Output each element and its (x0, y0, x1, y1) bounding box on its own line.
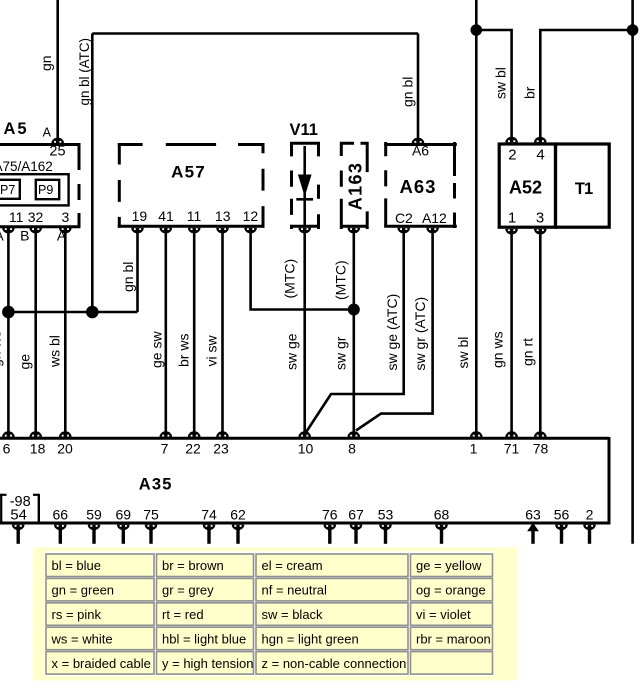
svg-text:rbr = maroon: rbr = maroon (416, 631, 491, 646)
svg-text:7: 7 (161, 440, 169, 456)
wire gn bl (ATC) vertical (77, 34, 92, 313)
svg-text:A163: A163 (346, 162, 366, 211)
svg-text:76: 76 (322, 506, 338, 522)
bus A35 top pin 71 (504, 431, 520, 456)
svg-text:78: 78 (533, 440, 549, 456)
fuse P9 (36, 180, 59, 199)
label A52 (509, 178, 542, 198)
bus A35 top pin 22 (185, 431, 201, 456)
junction A5-11 / A57-19 link (2, 306, 15, 319)
wire A57 pin 11 to bus pin 22 (175, 233, 194, 434)
label A57 (171, 163, 206, 182)
svg-text:53: 53 (378, 506, 394, 522)
wire A57 pin 41 to bus pin 7 (148, 233, 166, 434)
bus A35 bottom pin 68 (434, 506, 450, 544)
svg-text:8: 8 (348, 440, 356, 456)
junction A57-12 / A163 wire (348, 304, 360, 316)
V11 bottom terminal (298, 228, 311, 234)
svg-text:69: 69 (116, 506, 132, 522)
svg-text:A: A (57, 227, 67, 243)
svg-text:x = braided cable: x = braided cable (52, 656, 151, 671)
svg-text:66: 66 (53, 506, 69, 522)
bus A35 top pin 6 (2, 431, 15, 456)
wire gn bl (ATC) horizontal to A63 (92, 32, 418, 35)
svg-text:og = orange: og = orange (416, 583, 486, 598)
svg-text:18: 18 (30, 440, 46, 456)
svg-text:54: 54 (10, 507, 26, 523)
bus A35 top pin 18 (29, 431, 45, 456)
bus A35 top pin 1 (470, 431, 483, 456)
fuse carrier box in A5 (0, 174, 69, 205)
svg-text:gn rt: gn rt (519, 338, 535, 366)
svg-text:25: 25 (49, 144, 65, 160)
bus A35 bottom pin 66 (53, 506, 69, 544)
junction on br trunk (627, 24, 639, 36)
terminal 54 bracket -98 (0, 494, 40, 524)
label A5 (4, 120, 29, 138)
svg-text:P7: P7 (0, 183, 15, 197)
bus A35 bottom pin 56 (554, 506, 570, 544)
A5 pin 3 (57, 209, 72, 244)
wire V11 to bus pin 10 (282, 233, 305, 434)
A57 pin 41 (158, 208, 174, 234)
svg-text:gr = grey: gr = grey (162, 583, 214, 598)
svg-text:sw bl: sw bl (455, 337, 471, 369)
svg-text:(MTC): (MTC) (333, 260, 349, 300)
svg-text:gn ws: gn ws (0, 330, 4, 367)
svg-text:gn ws: gn ws (490, 331, 506, 368)
wire sw bl branch to A52 pin 2 (476, 30, 511, 139)
wire A57 pin 19 down (120, 233, 138, 312)
svg-text:A57: A57 (171, 163, 206, 182)
svg-text:2: 2 (508, 146, 516, 163)
bus A35 bottom pin 75 (143, 506, 159, 544)
A52 pin 4 (534, 137, 547, 164)
svg-text:A6: A6 (412, 142, 429, 158)
control unit A57 box (118, 143, 265, 228)
svg-text:71: 71 (504, 440, 520, 456)
svg-text:V11: V11 (290, 121, 318, 139)
bus A35 top pin 10 (298, 431, 314, 456)
svg-text:rs = pink: rs = pink (52, 607, 102, 622)
wire A163 to bus pin 8 (332, 233, 353, 434)
svg-text:56: 56 (554, 506, 570, 522)
svg-text:br ws: br ws (175, 334, 191, 367)
svg-text:vi = violet: vi = violet (416, 607, 471, 622)
svg-text:3: 3 (62, 209, 70, 225)
wire A57 pin 12 to sw gr junction (251, 233, 354, 310)
label T1 (575, 180, 593, 198)
wire gn from top to A5 pin 25 (38, 0, 58, 139)
svg-text:P9: P9 (38, 183, 53, 197)
A52 pin 1 (505, 210, 518, 235)
svg-text:ge sw: ge sw (148, 331, 164, 368)
svg-text:13: 13 (215, 208, 231, 224)
wire A57 pin 13 to bus pin 23 (203, 233, 222, 434)
relay A52 box (499, 144, 555, 227)
bus A35 bottom pin 62 (230, 506, 246, 544)
wire br trunk right side (631, 0, 634, 544)
svg-text:A35: A35 (139, 476, 173, 494)
A63 pin A6 terminal (412, 138, 430, 159)
A52 pin 2 (505, 137, 518, 164)
svg-text:41: 41 (158, 208, 174, 224)
wire A52 pin 1 to bus pin 71 (490, 233, 512, 434)
svg-text:68: 68 (434, 506, 450, 522)
svg-text:hgn = light green: hgn = light green (262, 631, 359, 646)
svg-text:20: 20 (57, 440, 73, 456)
terminal A5 pin 25 (43, 126, 66, 160)
fuse P7 (0, 180, 20, 199)
svg-text:A63: A63 (400, 176, 437, 197)
wire A5 pin 11 to bus pin 6 (0, 233, 8, 434)
label A35 (139, 476, 173, 494)
svg-text:B: B (20, 227, 29, 243)
A52 pin 3 (534, 210, 547, 235)
junction on sw bl trunk (471, 24, 483, 36)
svg-text:nf = neutral: nf = neutral (262, 583, 328, 598)
svg-text:4: 4 (536, 146, 544, 163)
svg-text:gn bl (ATC): gn bl (ATC) (77, 38, 92, 105)
svg-text:gn = green: gn = green (52, 583, 115, 598)
relay box A5 (0, 143, 81, 228)
bus A35 right edge (608, 437, 611, 525)
svg-text:gn bl: gn bl (120, 262, 136, 292)
diode symbol in V11 (296, 146, 313, 225)
svg-text:sw ge (ATC): sw ge (ATC) (384, 294, 400, 371)
svg-text:ws = white: ws = white (51, 631, 113, 646)
svg-text:y = high tension: y = high tension (162, 656, 253, 671)
svg-text:10: 10 (298, 440, 314, 456)
wire link A57 pin 19 to A5 pin 11 wire (8, 311, 137, 314)
wire br from A52 pin 4 to right trunk (521, 30, 632, 139)
wire A63 pin A12 to bus pin 8 (356, 233, 433, 431)
bus A35 bottom pin 74 (201, 506, 217, 544)
wire A5 pin 3 to bus pin 20 (46, 233, 65, 434)
bus A35 bottom pin 54 (12, 525, 25, 544)
svg-text:A12: A12 (422, 210, 447, 226)
label A63 (400, 176, 437, 197)
bus A35 bottom pin 63 with arrow (525, 506, 541, 544)
bus A35 bottom rail (0, 522, 609, 525)
A5 pin 32 (20, 209, 43, 244)
svg-text:12: 12 (243, 208, 259, 224)
svg-text:gn bl: gn bl (400, 77, 416, 107)
svg-text:11: 11 (187, 208, 202, 224)
svg-text:sw gr (ATC): sw gr (ATC) (412, 297, 428, 371)
svg-text:ws bl: ws bl (46, 335, 62, 368)
label A75/A162 (0, 159, 53, 174)
A57 pin 11 (187, 208, 202, 234)
A63 pin C2 (395, 210, 413, 234)
colour code legend table (34, 547, 519, 680)
label A163 rotated (346, 162, 366, 211)
svg-text:bl = blue: bl = blue (52, 558, 102, 573)
junction gn bl ATC meets link (86, 306, 99, 319)
bus A35 top rail (0, 437, 609, 440)
svg-text:C2: C2 (395, 210, 413, 226)
wire A63 pin C2 to bus pin 10 (307, 233, 404, 432)
svg-text:sw ge: sw ge (284, 333, 300, 370)
transformer T1 box (556, 144, 610, 227)
svg-text:A75/A162: A75/A162 (0, 159, 53, 174)
svg-text:19: 19 (132, 208, 148, 224)
svg-text:hbl = light blue: hbl = light blue (162, 631, 246, 646)
svg-text:75: 75 (143, 506, 159, 522)
svg-text:vi sw: vi sw (203, 335, 219, 367)
svg-text:A5: A5 (4, 120, 29, 138)
wire A52 pin 3 to bus pin 78 (519, 233, 540, 434)
svg-text:rt = red: rt = red (162, 607, 204, 622)
svg-text:T1: T1 (575, 180, 593, 198)
svg-text:1: 1 (470, 440, 478, 456)
A57 pin 12 (243, 208, 259, 234)
control unit A63 box (384, 142, 457, 228)
svg-text:A52: A52 (509, 178, 542, 198)
svg-text:67: 67 (348, 506, 364, 522)
A5 pin 11 (0, 209, 24, 244)
wire sw bl trunk to bus pin 1 (455, 0, 476, 434)
bus A35 bottom pin 69 (116, 506, 132, 544)
svg-text:23: 23 (213, 440, 229, 456)
bus A35 bottom pin 53 (378, 506, 394, 544)
wire gn bl drop to A63 pin A6 (400, 34, 419, 140)
svg-text:22: 22 (185, 440, 201, 456)
svg-text:1: 1 (508, 210, 516, 227)
svg-text:11: 11 (9, 209, 24, 225)
wire A5 pin 32 to bus pin 18 (17, 233, 36, 434)
svg-text:z = non-cable connection: z = non-cable connection (262, 656, 407, 671)
bus A35 top pin 23 (213, 431, 229, 456)
svg-text:(MTC): (MTC) (282, 259, 298, 299)
svg-text:sw = black: sw = black (262, 607, 324, 622)
component A163 box (340, 142, 369, 229)
svg-text:63: 63 (525, 506, 541, 522)
svg-text:sw gr: sw gr (332, 336, 348, 370)
bus A35 bottom pin 2 (583, 506, 596, 544)
svg-text:A: A (43, 126, 52, 140)
bus A35 bottom pin 67 (348, 506, 364, 544)
svg-text:br: br (521, 86, 537, 99)
svg-text:3: 3 (536, 210, 544, 227)
svg-text:sw bl: sw bl (493, 67, 509, 99)
A57 pin 13 (215, 208, 231, 234)
svg-text:ge: ge (17, 354, 33, 370)
svg-text:br = brown: br = brown (162, 558, 224, 573)
svg-text:el = cream: el = cream (262, 558, 323, 573)
svg-text:2: 2 (586, 506, 594, 522)
bus A35 top pin 20 (57, 431, 73, 456)
svg-text:59: 59 (86, 506, 102, 522)
svg-text:6: 6 (3, 440, 11, 456)
label V11 (290, 121, 318, 139)
bus A35 top pin 8 (348, 431, 361, 456)
bus A35 top pin 7 (160, 431, 173, 456)
A57 pin 19 (131, 208, 147, 234)
diode V11 box (290, 142, 320, 229)
svg-text:ge = yellow: ge = yellow (416, 558, 482, 573)
svg-text:gn: gn (38, 55, 54, 71)
svg-text:32: 32 (28, 209, 44, 225)
A163 bottom terminal (348, 228, 361, 234)
bus A35 top pin 78 (533, 431, 549, 456)
bus A35 bottom pin 76 (322, 506, 338, 544)
svg-text:62: 62 (230, 506, 246, 522)
A63 pin A12 (422, 210, 447, 234)
bus A35 bottom pin 59 (86, 506, 102, 544)
svg-text:74: 74 (201, 506, 217, 522)
